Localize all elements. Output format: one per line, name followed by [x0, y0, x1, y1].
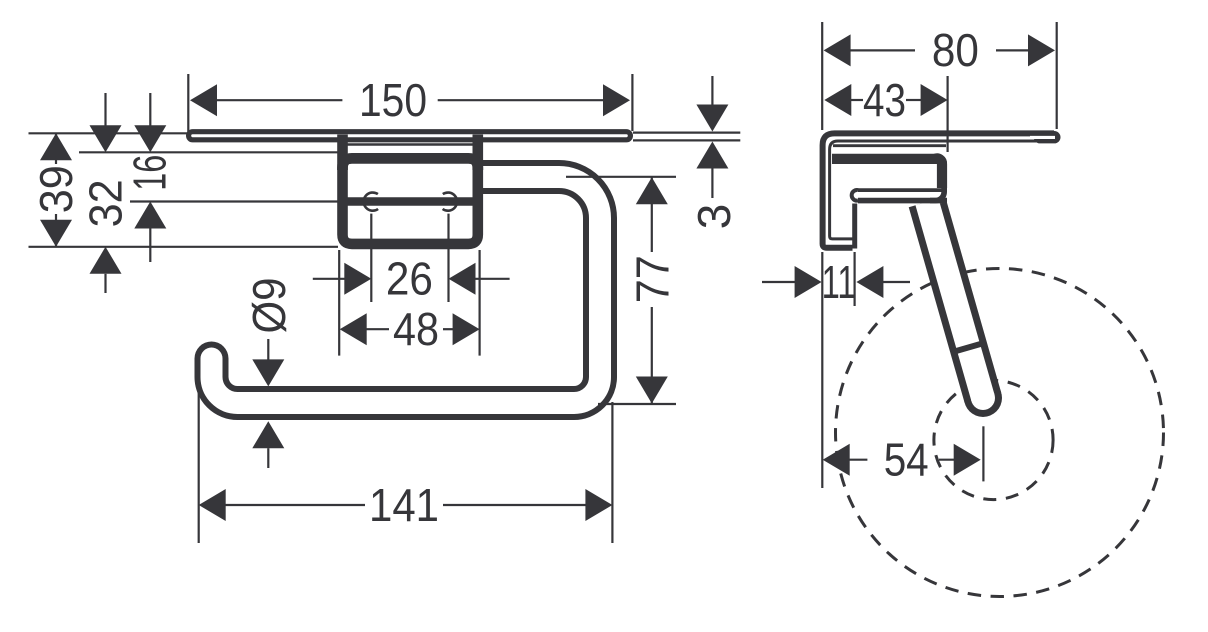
svg-text:11: 11: [822, 256, 856, 308]
svg-text:77: 77: [626, 255, 678, 303]
svg-text:48: 48: [393, 303, 439, 355]
svg-text:3: 3: [688, 204, 740, 230]
svg-text:54: 54: [884, 434, 929, 486]
svg-text:80: 80: [932, 24, 979, 76]
svg-text:26: 26: [386, 253, 433, 305]
svg-text:16: 16: [124, 155, 176, 191]
svg-text:43: 43: [863, 74, 906, 126]
svg-text:150: 150: [359, 74, 427, 126]
svg-text:141: 141: [369, 479, 439, 531]
svg-text:Ø9: Ø9: [243, 278, 295, 334]
svg-text:39: 39: [30, 165, 82, 213]
